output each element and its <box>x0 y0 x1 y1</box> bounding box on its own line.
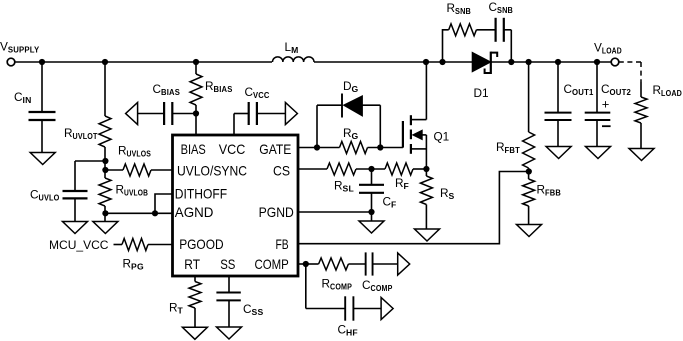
svg-text:UVLO/SYNC: UVLO/SYNC <box>177 163 247 178</box>
svg-text:COMP: COMP <box>255 257 289 272</box>
svg-text:SS: SS <box>220 257 235 272</box>
svg-text:MCU_VCC: MCU_VCC <box>49 238 109 252</box>
svg-text:PGND: PGND <box>259 205 294 220</box>
svg-text:+: + <box>602 97 610 112</box>
svg-text:Q1: Q1 <box>434 130 450 144</box>
svg-text:FB: FB <box>276 237 289 252</box>
svg-text:PGOOD: PGOOD <box>179 237 224 252</box>
svg-text:D1: D1 <box>474 86 489 100</box>
svg-text:DITHOFF: DITHOFF <box>175 187 227 202</box>
svg-text:VCC: VCC <box>219 142 246 157</box>
svg-text:AGND: AGND <box>175 205 214 220</box>
svg-text:BIAS: BIAS <box>181 142 206 157</box>
svg-text:CS: CS <box>273 163 290 178</box>
svg-text:RT: RT <box>184 257 200 272</box>
svg-text:GATE: GATE <box>259 142 291 157</box>
